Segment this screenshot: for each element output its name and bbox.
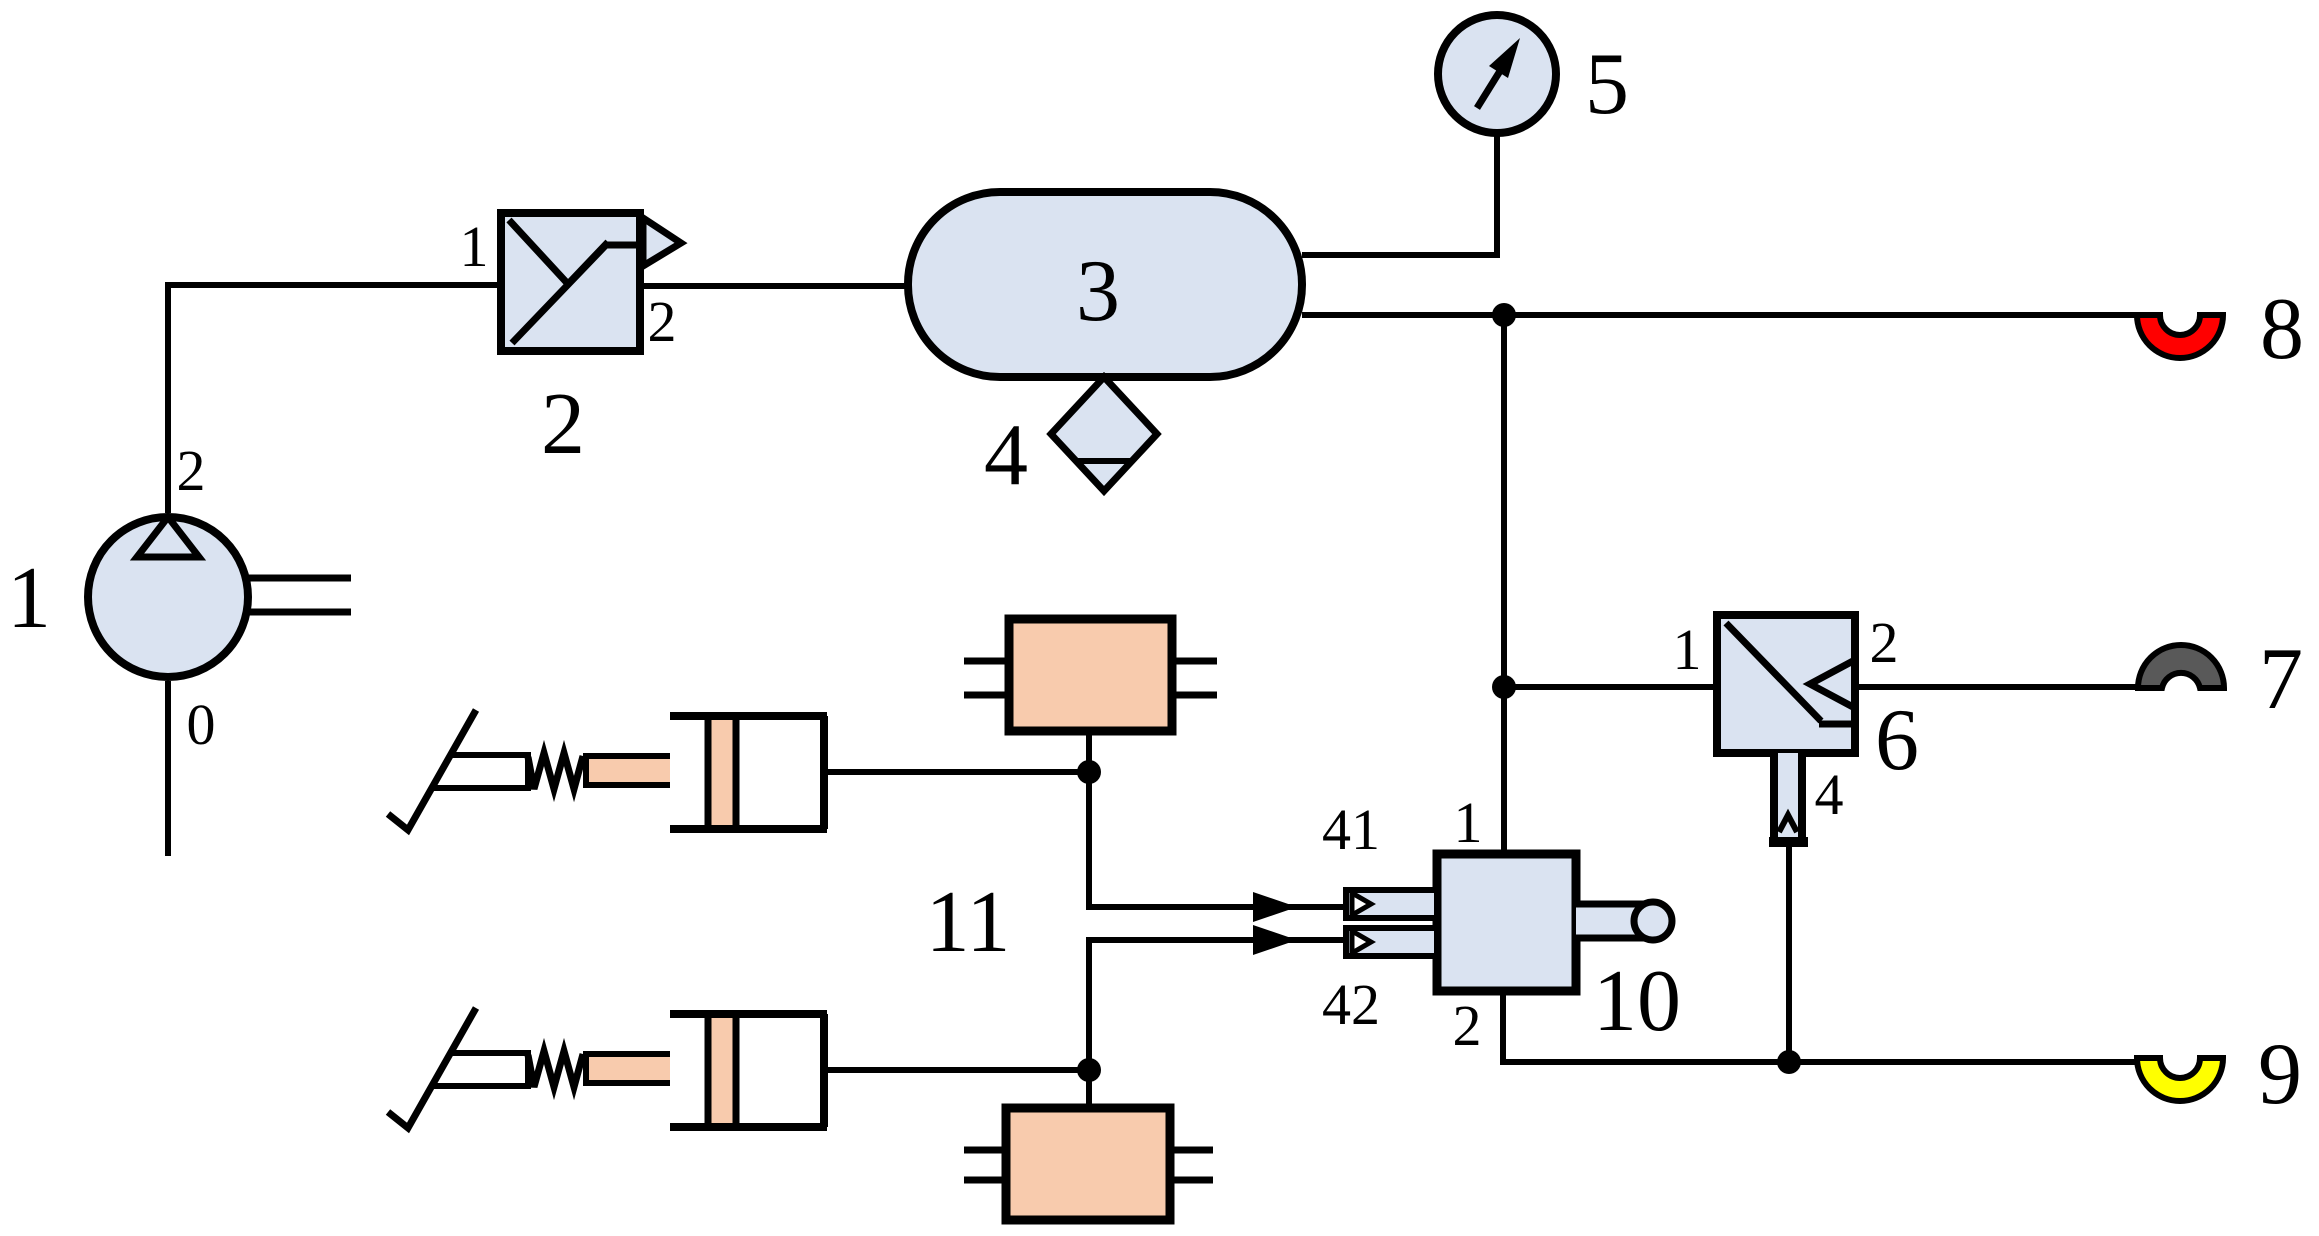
svg-text:4: 4 bbox=[984, 407, 1028, 504]
actuator block bottom bbox=[964, 1108, 1213, 1220]
wire bottom actuator branch to valve 10 port 42 bbox=[1089, 940, 1343, 1108]
wire pump 1 port 2 to valve 2 port 1 bbox=[168, 285, 501, 513]
wire cylinder 11a output to junction bbox=[824, 769, 1089, 775]
svg-text:42: 42 bbox=[1322, 972, 1380, 1037]
wire valve 2 port 2 to tank 3 bbox=[640, 283, 908, 289]
horn 9 (yellow) bbox=[2137, 1058, 2223, 1101]
wire valve 10 port 2 to horn 9 bbox=[1503, 991, 2137, 1062]
svg-text:2: 2 bbox=[177, 438, 206, 503]
lever cylinder 11b bbox=[388, 1008, 827, 1128]
wire cylinder 11b output to junction bbox=[824, 1067, 1089, 1073]
node junction on main line bbox=[1492, 303, 1516, 327]
wire branch to valve 6 port 1 bbox=[1504, 684, 1717, 690]
node junction port 4 line joins horn 9 line bbox=[1777, 1050, 1801, 1074]
pump compressor 1 bbox=[88, 517, 351, 677]
wire tank 3 to gauge 5 bbox=[1302, 136, 1497, 255]
svg-text:2: 2 bbox=[1870, 610, 1899, 675]
svg-text:1: 1 bbox=[460, 214, 489, 279]
svg-text:7: 7 bbox=[2259, 631, 2303, 728]
wire main vertical branch to valve 10 port 1 bbox=[1501, 315, 1507, 854]
svg-text:3: 3 bbox=[1076, 243, 1120, 340]
svg-text:1: 1 bbox=[1673, 617, 1702, 682]
svg-text:6: 6 bbox=[1875, 692, 1919, 789]
arrow into port 41 bbox=[1253, 892, 1297, 922]
svg-text:8: 8 bbox=[2260, 281, 2304, 378]
svg-text:1: 1 bbox=[7, 550, 51, 647]
node junction branch to valve 6 bbox=[1492, 675, 1516, 699]
wire pump 1 inlet port 0 bbox=[165, 681, 171, 856]
svg-text:1: 1 bbox=[1454, 790, 1483, 855]
wire main supply line tank 3 to horn 8 bbox=[1302, 312, 2137, 318]
horn 8 (red) bbox=[2137, 315, 2223, 358]
svg-text:5: 5 bbox=[1585, 36, 1629, 133]
node junction bottom actuator bbox=[1077, 1058, 1101, 1082]
horn 7 (gray) bbox=[2138, 645, 2224, 688]
pressure gauge 5 bbox=[1438, 15, 1556, 133]
regulator valve 2 bbox=[501, 213, 681, 351]
svg-text:2: 2 bbox=[1453, 993, 1482, 1058]
tank reservoir 3 bbox=[908, 192, 1302, 377]
svg-text:4: 4 bbox=[1815, 762, 1844, 827]
actuator block top bbox=[964, 619, 1217, 731]
pilot valve 6 bbox=[1717, 615, 1855, 842]
wire top actuator branch to valve 10 port 41 bbox=[1089, 729, 1343, 907]
svg-text:2: 2 bbox=[541, 376, 585, 473]
svg-text:9: 9 bbox=[2258, 1026, 2302, 1123]
svg-text:41: 41 bbox=[1322, 797, 1380, 862]
drain valve 4 bbox=[1051, 377, 1157, 491]
arrow into port 42 bbox=[1253, 925, 1297, 955]
wire valve 6 port 4 down to horn 9 line bbox=[1786, 843, 1792, 1062]
svg-text:0: 0 bbox=[187, 692, 216, 757]
svg-text:2: 2 bbox=[648, 289, 677, 354]
control valve 10 bbox=[1346, 854, 1672, 991]
wire valve 6 port 2 to horn 7 bbox=[1855, 684, 2140, 690]
node junction top actuator bbox=[1077, 760, 1101, 784]
lever cylinder 11a bbox=[388, 710, 827, 830]
svg-text:10: 10 bbox=[1593, 953, 1681, 1050]
svg-text:11: 11 bbox=[926, 874, 1011, 971]
